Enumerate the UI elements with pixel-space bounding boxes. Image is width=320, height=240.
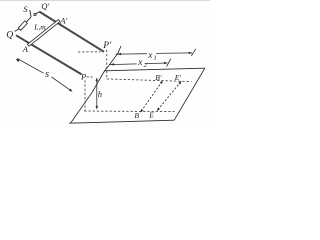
svg-text:Q′: Q′: [41, 1, 49, 11]
wire: switch contact to rail start Q': [36, 12, 40, 14]
switch S blade (open): [30, 10, 31, 17]
dashed short level line right of P: [87, 76, 94, 78]
dimension x2 (shaft): [109, 63, 137, 66]
resistor R (box) between Q and switch S: [18, 21, 27, 31]
tick at right end of x2: [167, 59, 171, 67]
dashed level line left of P': [78, 51, 101, 53]
switch S contact circle: [34, 13, 36, 15]
svg-text:s: s: [45, 69, 49, 80]
dashed vertical drop below P: [84, 80, 86, 111]
svg-text:B′: B′: [155, 73, 162, 82]
svg-text:B: B: [134, 111, 139, 120]
svg-text:x: x: [147, 51, 153, 61]
dashed vertical drop below P': [106, 50, 108, 79]
dimension x1 (shaft): [116, 53, 147, 56]
wire: lower rail end Q to resistor: [15, 29, 20, 32]
wire: resistor to switch pivot: [26, 17, 31, 22]
svg-text:E: E: [148, 111, 154, 120]
svg-text:2: 2: [144, 62, 148, 69]
landing line E-E' (dashed, rod position 2): [158, 82, 181, 110]
rail Q'-P' (upper rail): [39, 12, 104, 52]
dashed ground line 1 through B' E' (back): [107, 79, 192, 82]
rail Q-P (lower rail): [16, 35, 82, 74]
svg-text:P: P: [80, 71, 87, 81]
rod AA' (conducting bar, L,m): [27, 20, 60, 47]
svg-text:S: S: [23, 4, 28, 14]
faint scan line at top edge: [0, 0, 210, 2]
tick at right end of x1: [191, 49, 195, 56]
plane bottom edge: [69, 120, 174, 123]
svg-text:E′: E′: [174, 73, 182, 82]
svg-text:P′: P′: [102, 40, 112, 51]
dimension s along rails (double arrow): [17, 59, 43, 74]
svg-text:A′: A′: [59, 16, 67, 26]
plane right edge: [174, 68, 205, 120]
svg-text:L,m: L,m: [33, 22, 46, 31]
dashed ground line 2 through B E (front): [84, 110, 174, 113]
svg-text:1: 1: [154, 54, 157, 61]
dimension h (vertical double arrow): [96, 78, 98, 108]
svg-text:x: x: [137, 58, 143, 68]
plane top edge: [104, 68, 205, 71]
svg-text:Q: Q: [6, 30, 13, 41]
svg-text:h: h: [98, 89, 102, 99]
slanted reference line / left edge of plane: [71, 46, 122, 123]
landing line B-B' (dashed, rod position 1): [141, 82, 162, 112]
svg-text:A: A: [22, 44, 29, 54]
